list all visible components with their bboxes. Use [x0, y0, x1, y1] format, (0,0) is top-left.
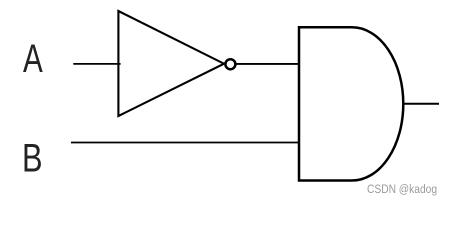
- node A label: [23, 37, 43, 81]
- svg-text:B: B: [22, 136, 43, 181]
- node B label: [22, 136, 43, 181]
- wire A input: [73, 63, 120, 65]
- svg-text:CSDN @kadog: CSDN @kadog: [367, 182, 437, 196]
- wire inverter to AND: [236, 63, 299, 65]
- wire B input: [71, 142, 299, 144]
- inverter U1 bubble: [225, 59, 235, 69]
- AND gate U2 body: [299, 27, 403, 180]
- svg-text:A: A: [23, 37, 43, 81]
- wire output: [403, 103, 439, 105]
- inverter U1 triangle: [118, 11, 224, 116]
